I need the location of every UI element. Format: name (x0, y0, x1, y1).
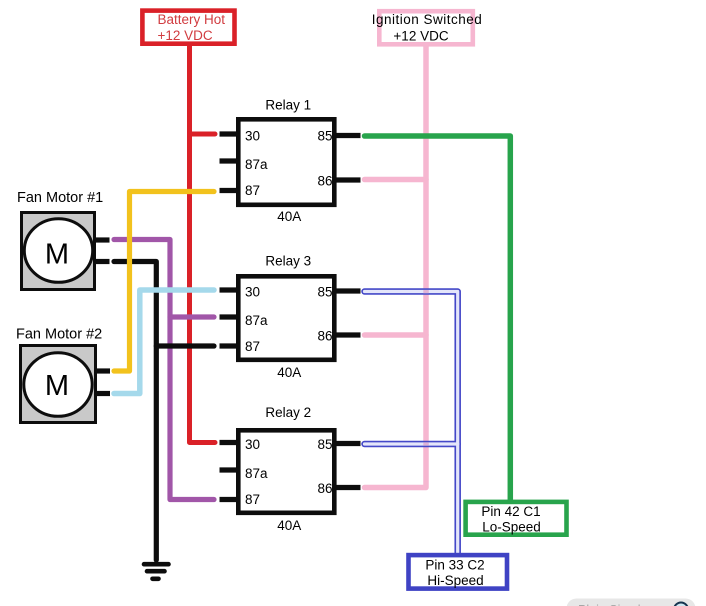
relay 3 pin 87a (220, 313, 269, 328)
node: Pin 42 C1 Lo-Speed (466, 502, 567, 535)
node: Pin 33 C2 Hi-Speed (409, 555, 508, 589)
wire: blue branch from Relay 2 pin 85 (365, 441, 458, 448)
svg-text:M: M (45, 239, 69, 271)
junction: pink visible through hollow blue at Relay 3 crossing (423, 290, 429, 293)
svg-text:86: 86 (317, 329, 332, 344)
wire: black ground wire from Fan Motor #1 to ground (114, 262, 156, 561)
motor M1 pin - (lower) (96, 259, 110, 264)
svg-text:Hi-Speed: Hi-Speed (427, 573, 483, 588)
wire: blue hollow core (branch) (365, 442, 458, 445)
svg-text:87a: 87a (245, 466, 268, 481)
svg-text:86: 86 (317, 481, 332, 496)
svg-text:30: 30 (245, 285, 260, 300)
relay 1 pin 30 (220, 129, 261, 144)
relay 1 pin 86 (317, 174, 360, 189)
wire: purple from Fan Motor #1 to Relay 2 pin 87 (114, 240, 214, 500)
ground (144, 564, 169, 579)
svg-text:85: 85 (317, 437, 332, 452)
svg-text:30: 30 (245, 437, 260, 452)
svg-text:86: 86 (317, 174, 332, 189)
svg-text:Ignition Switched: Ignition Switched (372, 12, 483, 27)
relay 1 pin 85 (317, 129, 360, 144)
wire: black branch to Relay 3 pin 87 (156, 343, 214, 348)
svg-text:Lo-Speed: Lo-Speed (482, 520, 541, 535)
wire: pink branch to Relay 1 pin 86 (365, 177, 427, 183)
relay 3 pin 85 (317, 285, 360, 300)
power source box: Ignition Switched +12 VDC (372, 11, 483, 44)
relay Relay 3 (238, 254, 334, 381)
relay 3 pin 86 (317, 329, 360, 344)
relay 1 pin 87 (220, 183, 261, 198)
relay 2 pin 86 (317, 481, 360, 496)
svg-text:Relay 3: Relay 3 (265, 254, 311, 269)
relay Relay 1 (238, 98, 334, 225)
svg-text:87a: 87a (245, 157, 268, 172)
motor M1 pin + (upper) (96, 237, 110, 242)
wire: yellow from Relay 1 pin 87 to Fan Motor #2 (114, 192, 214, 372)
wire: red battery hot bus (vertical + branch to Relay 2 pin 30) (190, 44, 216, 443)
svg-text:87: 87 (245, 339, 260, 354)
svg-text:+12 VDC: +12 VDC (393, 29, 448, 44)
motor M1: Fan Motor #1 (17, 190, 103, 290)
motor M2 pin - (lower) (97, 391, 111, 396)
svg-text:30: 30 (245, 129, 260, 144)
svg-text:Pin 33 C2: Pin 33 C2 (425, 557, 484, 572)
relay 1 pin 87a (220, 157, 269, 172)
svg-text:Battery Hot: Battery Hot (158, 12, 226, 27)
wire: pink branch to Relay 3 pin 86 (365, 332, 427, 338)
svg-text:85: 85 (317, 129, 332, 144)
relay 3 pin 87 (220, 339, 261, 354)
wire: green from Relay 1 pin 85 to Pin 42 C1 Lo-Speed (365, 136, 511, 503)
relay 2 pin 87a (220, 466, 269, 481)
svg-text:Relay 1: Relay 1 (265, 98, 311, 113)
relay Relay 2 (238, 405, 334, 533)
svg-text:87: 87 (245, 183, 260, 198)
relay 3 pin 30 (220, 285, 261, 300)
wire: pink ignition switched bus (vertical + branch to Relay 2 pin 86) (365, 44, 427, 488)
svg-text:87a: 87a (245, 313, 268, 328)
relay 2 pin 85 (317, 437, 360, 452)
wire: blue hollow core (main) (365, 292, 458, 555)
relay 2 pin 30 (220, 437, 261, 452)
svg-text:87: 87 (245, 492, 260, 507)
junction: pink visible through hollow blue at Relay 2 crossing (423, 442, 429, 445)
svg-text:Relay 2: Relay 2 (265, 405, 311, 420)
power source box: Battery Hot +12 VDC (142, 11, 234, 44)
svg-text:Fan Motor #1: Fan Motor #1 (17, 190, 103, 206)
svg-text:85: 85 (317, 285, 332, 300)
svg-text:Fan Motor #2: Fan Motor #2 (16, 327, 102, 343)
svg-text:Pin 42 C1: Pin 42 C1 (481, 504, 540, 519)
wire: light blue from Relay 3 pin 30 to Fan Motor #2 (114, 290, 214, 394)
motor M2 pin + (upper) (97, 368, 111, 373)
wire: red branch to Relay 1 pin 30 (190, 132, 216, 137)
motor M2: Fan Motor #2 (16, 327, 102, 423)
watermark pill (bottom right, cropped) (567, 599, 696, 606)
relay 2 pin 87 (220, 492, 261, 507)
svg-text:40A: 40A (277, 518, 301, 533)
svg-text:M: M (45, 370, 69, 402)
svg-text:40A: 40A (277, 365, 301, 380)
svg-text:+12 VDC: +12 VDC (158, 28, 213, 43)
wire: blue from Relay 3 pin 85 to Pin 33 C2 Hi-Speed (365, 292, 458, 555)
svg-text:40A: 40A (277, 209, 301, 224)
wire: purple branch to Relay 3 pin 87a (170, 314, 214, 319)
